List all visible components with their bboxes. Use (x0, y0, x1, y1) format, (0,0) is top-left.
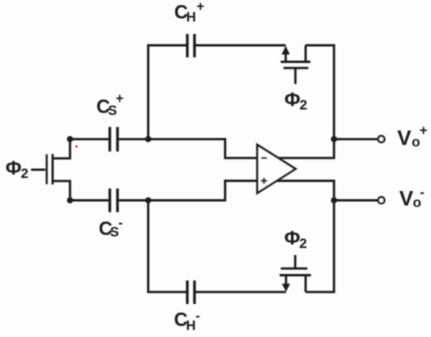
svg-text:+: + (420, 123, 428, 138)
label Vo+ (397, 123, 427, 150)
node: summing node CS+/CH+ (145, 136, 151, 142)
wire: bottom rail CH- to bottom switch left terminal (195, 291, 287, 293)
svg-text:2: 2 (299, 235, 307, 251)
wire: top feedback rail from left vertical to CH+ (148, 45, 187, 139)
wire: gate lead (31, 169, 45, 171)
channel bar (280, 274, 311, 276)
channel bar (51, 154, 53, 185)
capacitor CS- (110, 189, 118, 213)
op-amp U1 (257, 145, 295, 193)
wire: Vo+ terminal lead (334, 138, 378, 140)
transistor: bottom reset switch (phi2) (280, 255, 311, 292)
svg-text:-: - (420, 185, 425, 200)
gate bar (46, 154, 48, 184)
label CH- (174, 309, 200, 334)
wire: Vo- terminal lead (334, 199, 378, 201)
svg-text:Φ: Φ (6, 158, 22, 180)
svg-text:H: H (186, 318, 196, 333)
node: Vo+ junction (331, 136, 337, 142)
label phi2 (left) (6, 158, 29, 181)
node: left bottom (input side of CS-) (67, 197, 73, 203)
node: left top (input side of CS+) (67, 136, 73, 142)
channel bar (281, 61, 311, 63)
terminal Vo+ (open circle) (378, 136, 384, 142)
wire: left terminal stub with arrow (285, 275, 287, 285)
gate bar (284, 67, 309, 69)
transistor: left input sampling switch (gate driven by phi2) (31, 139, 70, 200)
capacitor CH+ (187, 34, 194, 57)
wire: source stub down to CS- node (53, 181, 70, 200)
capacitor CH- (187, 281, 194, 305)
wire: top rail CH+ to top switch left terminal (195, 44, 286, 46)
op-amp output wire (bottom) to Vo- branch and bottom switch (277, 181, 334, 292)
terminal Vo- (open circle) (378, 197, 384, 203)
wire: drain stub up to CS+ node (53, 139, 70, 158)
wire: left terminal stub with arrow (285, 53, 287, 62)
wire: right terminal stub (304, 275, 306, 292)
svg-text:V: V (399, 188, 413, 211)
svg-text:Φ: Φ (284, 228, 300, 250)
label CH+ (174, 0, 204, 25)
gate bar (281, 267, 308, 269)
svg-text:2: 2 (300, 96, 308, 112)
svg-text:V: V (397, 127, 411, 150)
transistor: top reset switch (phi2) (281, 45, 311, 84)
capacitor CS+ (110, 127, 118, 152)
stray red speck artifact (75, 145, 77, 147)
node: summing node CS-/CH- (145, 197, 151, 203)
label CS+ (96, 91, 123, 118)
plus marking (261, 178, 267, 184)
label Vo- (399, 185, 424, 211)
svg-text:-: - (118, 215, 123, 230)
wire: right terminal stub (304, 45, 306, 62)
wire: gate lead (294, 255, 296, 269)
svg-text:Φ: Φ (284, 89, 300, 111)
wire: CS+ to op-amp inverting-input jog (118, 139, 258, 158)
minus marking (261, 157, 267, 159)
svg-text:-: - (196, 309, 201, 324)
label phi2 (bottom switch) (284, 228, 307, 252)
wire: gate lead (294, 68, 296, 84)
wire: CS- row, left node to CS- (70, 199, 110, 201)
op-amp output wire (top) to Vo+ branch and top switch (277, 45, 334, 158)
label CS- (99, 215, 123, 239)
wire: CS+ row, left node to CS+ (70, 138, 110, 140)
node: Vo- junction (331, 197, 337, 203)
label phi2 (top switch) (284, 89, 307, 113)
svg-text:+: + (197, 0, 205, 14)
wire: CS- to op-amp non-inverting-input jog (118, 181, 258, 201)
svg-text:2: 2 (21, 165, 29, 181)
wire: bottom feedback rail from left vertical to CH- (148, 200, 187, 292)
svg-text:H: H (186, 10, 196, 25)
svg-text:+: + (116, 91, 124, 106)
